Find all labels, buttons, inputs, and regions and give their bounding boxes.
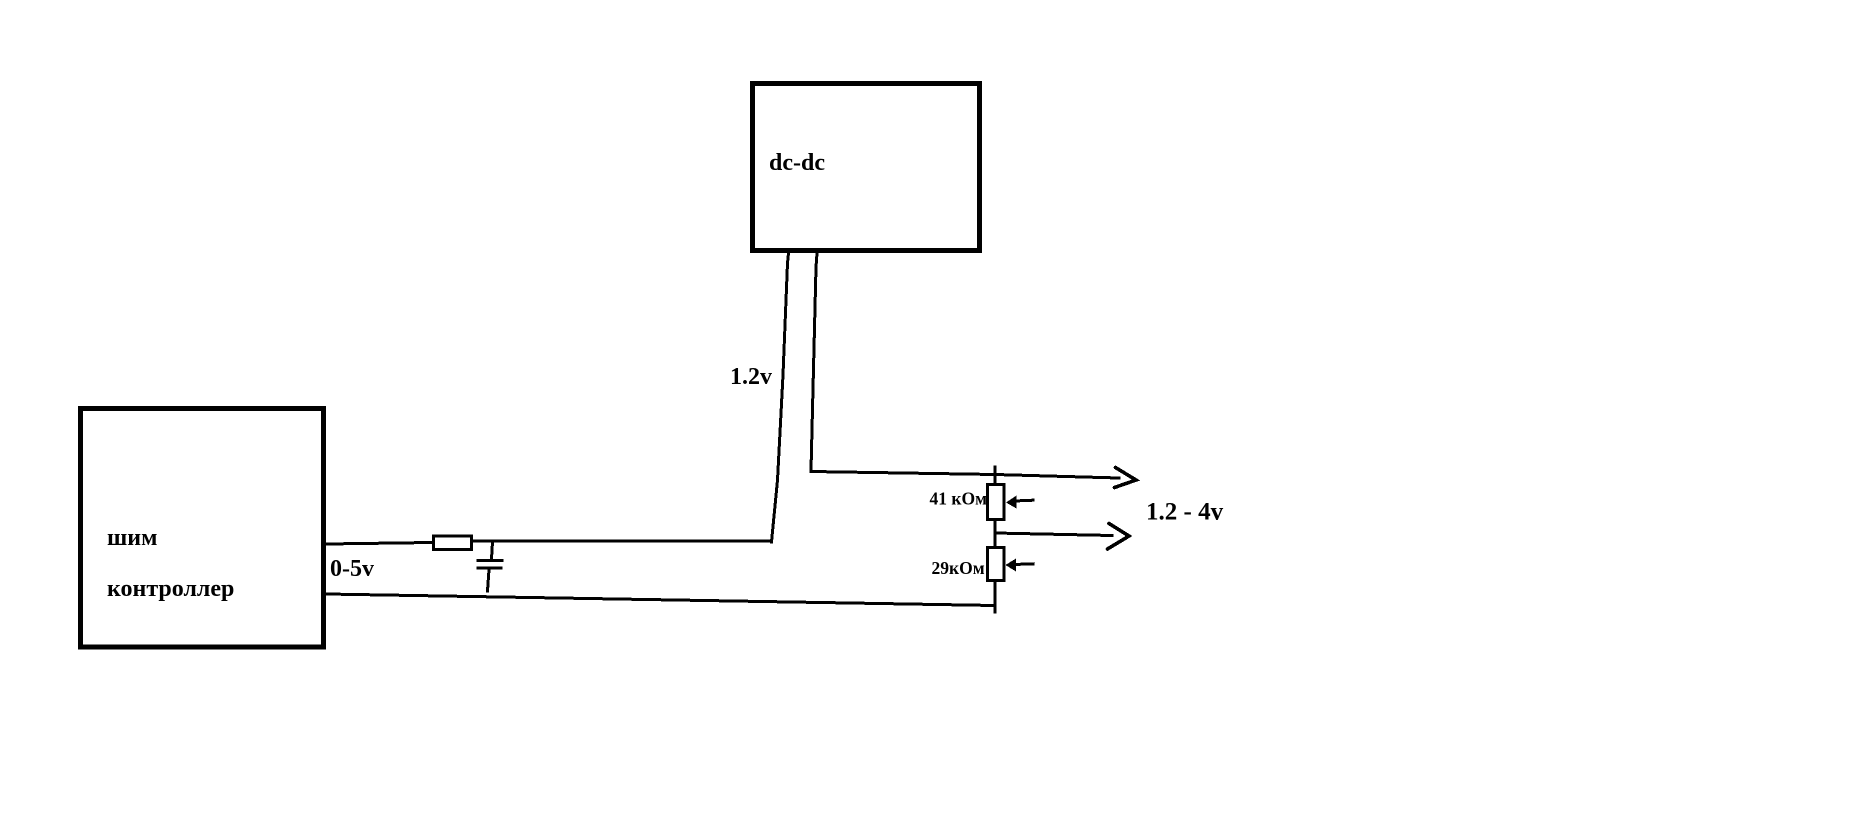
node A junction stub / wire down to pot R2 xyxy=(994,467,997,483)
svg-text:41 кОм: 41 кОм xyxy=(930,489,988,509)
wire: dc-dc left lead (1.2v output) sloping down to node A xyxy=(772,253,789,542)
wire: шим output to series resistor xyxy=(326,543,432,545)
wire between pots xyxy=(994,521,997,546)
wire: resistor to node A xyxy=(473,540,771,543)
svg-text:0-5v: 0-5v xyxy=(330,556,374,582)
wire: dc-dc right lead down xyxy=(811,253,817,470)
potentiometer R2 41 kOm body xyxy=(988,485,1005,520)
wire below R3 to bottom return xyxy=(994,582,997,612)
potentiometer R3 29 kOm body xyxy=(988,548,1005,581)
R2 wiper arrow xyxy=(1014,499,1033,503)
svg-text:шим: шим xyxy=(107,525,157,551)
wire: top output horizontal xyxy=(811,472,1119,479)
arrowhead middle output xyxy=(1108,524,1130,550)
svg-text:контроллер: контроллер xyxy=(107,576,234,602)
шим контроллер box U1 xyxy=(81,409,324,648)
capacitor C1 top lead xyxy=(492,542,493,559)
wire: bottom return from шим to divider xyxy=(326,594,995,606)
capacitor C1 bottom plate xyxy=(478,567,501,570)
svg-text:1.2 - 4v: 1.2 - 4v xyxy=(1146,499,1224,526)
resistor R1 series xyxy=(434,536,472,550)
capacitor C1 top plate xyxy=(478,559,502,562)
wire: middle output xyxy=(995,533,1112,536)
R3 wiper arrow xyxy=(1014,562,1033,566)
svg-text:29кОм: 29кОм xyxy=(932,558,985,578)
arrowhead top output xyxy=(1115,468,1137,488)
capacitor C1 bottom lead xyxy=(488,570,490,592)
svg-text:dc-dc: dc-dc xyxy=(769,150,825,176)
svg-text:1.2v: 1.2v xyxy=(730,364,772,390)
dc-dc box U2 xyxy=(753,84,980,251)
